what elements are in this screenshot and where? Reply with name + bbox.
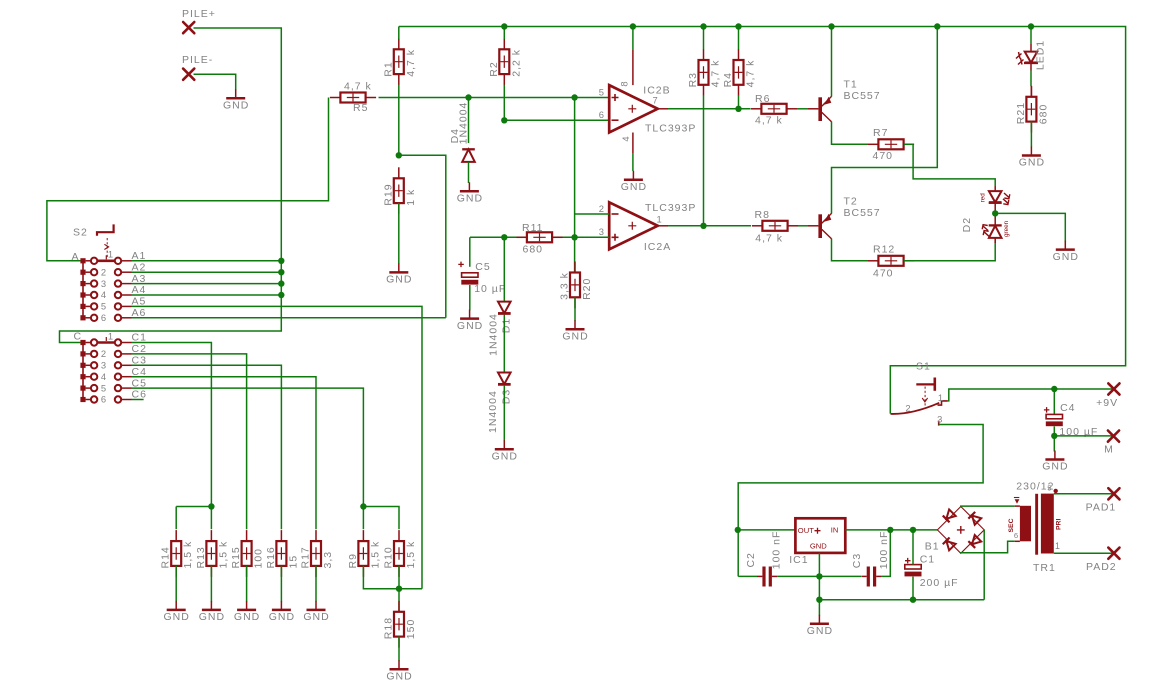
svg-text:5: 5 — [101, 301, 107, 312]
junction C3 top — [887, 527, 893, 533]
wire R19 bottom to ground — [398, 203, 400, 264]
svg-text:R12: R12 — [873, 244, 895, 256]
LED D2 red — [989, 186, 1010, 205]
wire R14 top — [175, 507, 177, 530]
capacitor C1 200uF — [905, 530, 922, 600]
svg-text:4,7 k: 4,7 k — [755, 115, 783, 127]
svg-text:3,3 k: 3,3 k — [559, 272, 571, 300]
svg-text:4,7 k: 4,7 k — [405, 49, 417, 77]
svg-text:GND: GND — [164, 611, 190, 623]
wire comparator + input net — [379, 97, 610, 99]
transformer TR1 secondary winding — [1020, 506, 1031, 542]
svg-text:B1: B1 — [925, 540, 940, 552]
wire C3 — [132, 365, 282, 529]
ground GND (R17) — [303, 601, 329, 623]
svg-text:1: 1 — [657, 214, 663, 225]
wire IC2A pin2 to reference column — [575, 213, 610, 215]
wire PILE- to ground — [194, 74, 236, 89]
wire R11 node down to D1 — [503, 237, 505, 301]
junction C1 bottom — [910, 597, 916, 603]
resistor R21 680 — [1026, 86, 1036, 133]
junction supply rail — [1028, 23, 1034, 29]
svg-text:+9V: +9V — [1096, 397, 1118, 409]
svg-text:3: 3 — [937, 413, 943, 424]
junction +9V / C4 — [1051, 386, 1057, 392]
wire R21 to ground — [1030, 122, 1032, 148]
wire R13 top lead — [210, 507, 212, 530]
wire S1 pin3 to regulator output — [738, 425, 983, 577]
svg-text:C5: C5 — [475, 261, 490, 273]
resistor R17 3,3 — [300, 530, 335, 577]
wire R8 to T2 base — [798, 225, 808, 227]
svg-text:R15: R15 — [230, 546, 242, 568]
switch S2 actuator — [73, 224, 114, 257]
resistor R12 470 — [868, 256, 914, 266]
svg-text:1N4004: 1N4004 — [487, 390, 499, 433]
svg-text:1,5 k: 1,5 k — [182, 541, 194, 569]
svg-text:R2: R2 — [488, 61, 500, 76]
resistor R14 1,5 k — [160, 530, 195, 577]
svg-text:1,5 k: 1,5 k — [405, 541, 417, 569]
pin M — [1108, 431, 1119, 442]
wire PRI pin1 to PAD2 — [1054, 552, 1114, 554]
resistor R20 3,3k — [570, 262, 580, 309]
switch S2 deck C common bus — [74, 331, 92, 403]
capacitor C2 100nF — [757, 567, 777, 587]
wire T1 collector to R7 — [832, 122, 869, 145]
resistor R10 1,5k — [383, 530, 418, 577]
svg-text:5: 5 — [101, 382, 107, 393]
svg-text:GND: GND — [492, 450, 518, 462]
diode D3 1N4004 — [498, 373, 511, 385]
wire R14 to ground — [175, 566, 177, 602]
LED LED1 — [1016, 52, 1038, 65]
svg-text:6: 6 — [101, 394, 107, 405]
svg-text:LED1: LED1 — [1035, 40, 1047, 70]
wire R18 to ground — [398, 636, 400, 661]
voltage regulator IC1 — [795, 518, 845, 553]
ground GND (R21) — [1019, 147, 1045, 169]
wire PILE+ to A-deck column — [60, 28, 282, 343]
switch S2 contact C3 — [91, 360, 132, 371]
svg-text:200 µF: 200 µF — [920, 577, 959, 589]
junction supply rail — [501, 23, 507, 29]
wire T2 collector to R12 — [832, 239, 869, 261]
op-amp IC2B TLC393P — [609, 85, 658, 132]
svg-text:R1: R1 — [382, 61, 394, 76]
svg-text:4,7 k: 4,7 k — [710, 60, 722, 88]
wire R3 top to rail — [703, 27, 705, 50]
transistor T1 BC557 — [818, 96, 831, 121]
svg-text:4: 4 — [620, 135, 631, 141]
resistor R13 1,5 k — [195, 530, 230, 577]
ground GND (C5) — [457, 310, 483, 332]
junction IC2B output / R4 / R6 — [735, 106, 741, 112]
wire - input net to pin 6 — [504, 119, 609, 121]
pin 8 of IC2B — [632, 27, 634, 51]
wire R2 top to rail — [503, 27, 505, 40]
capacitor C4 100uF — [1044, 407, 1050, 413]
junction R11 right / reference — [571, 234, 577, 240]
wire C6 — [132, 399, 144, 401]
svg-text:470: 470 — [873, 267, 894, 279]
switch S2 contact A1 — [91, 249, 132, 264]
svg-text:470: 470 — [873, 150, 894, 162]
svg-text:R4: R4 — [722, 72, 734, 87]
svg-text:100 nF: 100 nF — [878, 531, 890, 570]
svg-text:GND: GND — [457, 193, 483, 205]
svg-text:R3: R3 — [687, 72, 699, 87]
wire IC2A pin3 net — [470, 236, 609, 238]
wire R1 top to supply rail — [398, 27, 400, 40]
wire IC2B output — [658, 108, 668, 110]
pin 7 marker (TR1) — [1015, 499, 1020, 504]
svg-text:1N4004: 1N4004 — [488, 313, 500, 356]
ground GND (R20) — [562, 320, 588, 342]
svg-text:680: 680 — [523, 244, 544, 256]
svg-text:7: 7 — [653, 95, 659, 106]
switch S2 contact C5 — [91, 382, 132, 393]
svg-text:R11: R11 — [522, 222, 543, 234]
diode D4 1N4004 — [462, 149, 475, 162]
wire IC2A output — [658, 225, 668, 227]
svg-text:1: 1 — [1055, 541, 1061, 551]
svg-text:S1: S1 — [916, 361, 931, 373]
svg-text:R19: R19 — [382, 183, 394, 205]
svg-text:R6: R6 — [755, 93, 770, 105]
wire C4 node to ground — [1053, 436, 1055, 452]
wire ground rail bottom — [819, 599, 984, 601]
svg-text:PILE-: PILE- — [182, 54, 213, 66]
svg-text:4,7 k: 4,7 k — [755, 233, 783, 245]
ground GND (D3) — [492, 440, 518, 462]
wire rail branch to T2 emitter — [832, 27, 938, 214]
junction gnd rail 1 — [816, 573, 822, 579]
svg-text:D1: D1 — [501, 318, 513, 333]
wire A6 — [132, 317, 446, 319]
svg-text:100 nF: 100 nF — [771, 531, 783, 570]
svg-text:T1: T1 — [844, 79, 858, 91]
wire R9/R10 bottoms — [363, 566, 422, 589]
svg-text:R14: R14 — [160, 546, 172, 568]
svg-text:C2: C2 — [745, 552, 757, 567]
svg-text:15: 15 — [287, 555, 299, 569]
svg-text:GND: GND — [807, 625, 833, 637]
switch S2 contact A5 — [91, 301, 132, 312]
svg-text:10 µF: 10 µF — [474, 283, 506, 295]
svg-text:R20: R20 — [581, 278, 593, 300]
switch S2 contact C2 — [91, 348, 132, 359]
svg-text:150: 150 — [405, 619, 417, 640]
junction deck A — [278, 258, 284, 264]
wire node to A6 column — [399, 155, 446, 317]
pin PILE+ — [183, 22, 194, 33]
svg-text:5: 5 — [599, 86, 605, 97]
svg-text:230/12: 230/12 — [1016, 481, 1054, 493]
svg-text:GND: GND — [621, 181, 647, 193]
ground GND (IC2B pin4) — [621, 171, 647, 193]
svg-text:TLC393P: TLC393P — [645, 123, 696, 135]
svg-text:PAD1: PAD1 — [1086, 502, 1117, 514]
wire S1 pin1 to +9V — [948, 389, 1114, 401]
resistor R1 4,7k — [382, 38, 417, 85]
switch S2 contact A4 — [91, 289, 132, 300]
wire R4 top to rail — [738, 27, 740, 50]
wire C5 — [132, 388, 364, 506]
svg-text:PAD2: PAD2 — [1086, 561, 1117, 573]
op-amp IC2A TLC393P — [609, 202, 658, 249]
wire C4 top — [1053, 389, 1055, 414]
wire D3 to ground — [503, 386, 505, 441]
svg-text:2: 2 — [905, 402, 911, 413]
wire LED1 cathode to R21 — [1030, 63, 1032, 71]
wire D4 to + input net — [468, 98, 470, 144]
wire R17 to ground — [315, 566, 317, 602]
svg-text:3,3: 3,3 — [322, 551, 334, 569]
svg-text:GND: GND — [269, 611, 295, 623]
wire A4 — [132, 294, 282, 296]
svg-text:R8: R8 — [755, 209, 770, 221]
svg-text:4,7 k: 4,7 k — [344, 80, 372, 92]
wire R18 top lead — [398, 589, 400, 612]
svg-text:M: M — [1104, 443, 1114, 455]
capacitor C3 100nF — [861, 567, 881, 587]
junction supply rail — [828, 23, 834, 29]
svg-text:3: 3 — [101, 360, 107, 371]
switch S2 contact C4 — [91, 371, 132, 382]
svg-text:680: 680 — [1037, 104, 1049, 125]
wire C1 — [132, 343, 212, 507]
junction D2 cathodes — [992, 210, 998, 216]
ground GND (R14) — [164, 601, 190, 623]
svg-text:TR1: TR1 — [1033, 562, 1056, 574]
svg-text:8: 8 — [619, 80, 630, 86]
bridge rectifier B1 — [937, 507, 984, 554]
resistor R3 4,7k — [699, 49, 709, 96]
ground GND (R18) — [386, 660, 412, 682]
wire regulator OUT rail — [738, 529, 795, 531]
svg-text:A: A — [72, 251, 80, 263]
svg-text:GND: GND — [199, 611, 225, 623]
ground GND (R16) — [269, 601, 295, 623]
wire D2 to ground — [995, 213, 1065, 241]
transformer TR1 core — [1035, 494, 1038, 555]
pin PILE- — [183, 69, 194, 80]
wire R20 top — [574, 237, 576, 272]
resistor R6 4,7k — [751, 104, 797, 114]
capacitor C5 10uF — [458, 262, 464, 268]
diode D1 1N4004 — [498, 302, 511, 314]
svg-text:R10: R10 — [383, 546, 395, 568]
ground GND (PILE-) — [223, 89, 249, 111]
junction R9 top — [360, 503, 366, 509]
svg-text:R16: R16 — [265, 546, 277, 568]
wire R16 to ground — [280, 566, 282, 602]
wire IC1 GND pin — [818, 553, 820, 616]
wire D4 anode to ground — [468, 162, 470, 183]
junction deck A — [278, 292, 284, 298]
wire C2 left to OUT node — [738, 575, 757, 577]
wire C5 to R11 node — [469, 237, 471, 266]
pin PAD1 — [1108, 488, 1119, 499]
transistor T2 BC557 — [818, 213, 831, 238]
pin 4 of IC2B — [632, 133, 634, 154]
svg-text:S2: S2 — [73, 227, 88, 239]
svg-text:T2: T2 — [844, 196, 858, 208]
wire R6 to T1 base — [797, 108, 808, 110]
wire +V supply rail — [399, 27, 1126, 414]
svg-text:IC2A: IC2A — [644, 241, 671, 253]
svg-text:GND: GND — [562, 331, 588, 343]
svg-text:1,5 k: 1,5 k — [369, 541, 381, 569]
wire R7 to LED D2 red anode — [904, 144, 995, 186]
svg-text:4: 4 — [101, 289, 107, 300]
svg-text:GND: GND — [457, 320, 483, 332]
wire R2 bottom to - input net — [503, 85, 505, 121]
svg-text:1,5 k: 1,5 k — [217, 541, 229, 569]
wire R5 left to switch deck A common — [47, 98, 329, 261]
switch S2 contact A3 — [91, 278, 132, 289]
wire R3 bottom to IC2A output — [703, 96, 705, 226]
junction R13 top — [208, 503, 214, 509]
ground GND (D2) — [1053, 241, 1079, 263]
wire R14/R13 top link — [176, 506, 211, 508]
svg-text:R5: R5 — [353, 102, 368, 114]
svg-text:2: 2 — [101, 348, 107, 359]
ground GND (R19) — [386, 263, 412, 285]
wire C3 right to IN rail — [882, 530, 891, 577]
svg-text:GND: GND — [386, 274, 412, 286]
wire A1 — [132, 260, 282, 262]
wire R4 bottom to IC2B output — [738, 96, 740, 109]
wire bridge AC bottom to SEC — [961, 541, 1015, 553]
wire A3 — [132, 283, 282, 285]
junction on + input net at reference column — [571, 94, 577, 100]
wire T1 emitter to rail — [831, 27, 833, 97]
resistor R9 1,5k — [347, 530, 382, 577]
wire R1 bottom to R19 node — [398, 85, 400, 156]
wire ground rail C2-C3 — [777, 575, 861, 577]
svg-text:4,7 k: 4,7 k — [745, 60, 757, 88]
junction supply rail — [735, 23, 741, 29]
wire R13 to ground — [210, 566, 212, 602]
switch S2 contact A2 — [91, 266, 132, 277]
resistor R16 15 — [265, 530, 300, 577]
svg-text:BC557: BC557 — [844, 90, 881, 102]
ground GND (R15) — [234, 601, 260, 623]
resistor R8 4,7k — [752, 221, 798, 231]
junction supply rail — [700, 23, 706, 29]
LED D2 green — [982, 225, 1002, 243]
wire LED1 anode from rail — [1030, 27, 1032, 45]
svg-text:6: 6 — [1014, 531, 1019, 540]
svg-text:3: 3 — [101, 278, 107, 289]
svg-text:1N4004: 1N4004 — [458, 102, 470, 145]
svg-text:BC557: BC557 — [844, 207, 881, 219]
svg-text:PILE+: PILE+ — [182, 8, 216, 20]
junction - input net — [501, 117, 507, 123]
wire R12 to LED D2 green anode — [904, 238, 995, 261]
svg-text:GND: GND — [1053, 251, 1079, 263]
svg-text:2: 2 — [599, 203, 605, 214]
svg-text:GND: GND — [234, 611, 260, 623]
junction supply rail — [934, 23, 940, 29]
svg-text:GND: GND — [386, 671, 412, 683]
svg-text:GND: GND — [1042, 461, 1068, 473]
svg-text:R9: R9 — [347, 553, 359, 568]
svg-text:C1: C1 — [920, 554, 935, 566]
svg-text:D3: D3 — [501, 389, 513, 404]
wire bridge minus to ground rail — [983, 530, 985, 600]
svg-text:2: 2 — [101, 266, 107, 277]
junction R11 left / C5 — [501, 234, 507, 240]
svg-text:1: 1 — [108, 330, 114, 341]
svg-text:R18: R18 — [383, 617, 395, 639]
ground GND (D4) — [457, 182, 483, 204]
junction deck A — [278, 280, 284, 286]
svg-text:3: 3 — [599, 226, 605, 237]
switch S2 contact C6 — [91, 394, 132, 405]
ground GND (C4) — [1042, 451, 1068, 473]
wire C5 to ground — [469, 285, 471, 311]
svg-text:R13: R13 — [195, 546, 207, 568]
resistor R19 1k — [382, 167, 417, 214]
wire A5 — [132, 306, 423, 588]
pin 5 marker (TR1) — [1054, 489, 1058, 493]
svg-text:4: 4 — [101, 371, 107, 382]
wire R15 to ground — [246, 566, 248, 602]
svg-text:C4: C4 — [1060, 402, 1075, 414]
resistor R18 150 — [383, 601, 418, 648]
switch S2 contact C1 — [91, 330, 132, 345]
junction supply rail — [630, 23, 636, 29]
svg-text:PRI: PRI — [1056, 519, 1063, 530]
wire D2 cathodes junction — [994, 203, 996, 225]
svg-text:1: 1 — [938, 392, 944, 403]
svg-text:IN: IN — [831, 526, 839, 535]
wire A2 — [132, 271, 282, 273]
svg-text:R7: R7 — [873, 127, 888, 139]
junction regulator OUT node — [735, 527, 741, 533]
switch S2 deck A common bus — [72, 251, 92, 320]
wire R9 top lead — [362, 507, 364, 530]
svg-text:R21: R21 — [1015, 102, 1027, 124]
svg-text:IC1: IC1 — [789, 554, 808, 566]
junction on + input net at D4 — [465, 94, 471, 100]
junction IC2A output / R3 — [700, 223, 706, 229]
junction C1 top — [910, 527, 916, 533]
wire IC1 IN rail — [845, 529, 937, 531]
junction node R1/R19 — [396, 152, 402, 158]
svg-text:C3: C3 — [851, 553, 863, 568]
svg-text:OUT: OUT — [798, 526, 814, 535]
svg-text:R17: R17 — [300, 546, 312, 568]
wire R9/R10 top link — [363, 507, 399, 530]
resistor R2 2,2k — [488, 38, 523, 85]
svg-text:100: 100 — [253, 548, 265, 569]
svg-text:GND: GND — [303, 611, 329, 623]
junction gnd rail 2 — [816, 597, 822, 603]
svg-text:2,2 k: 2,2 k — [510, 49, 522, 77]
wire C4 bottom to M pin — [1053, 426, 1055, 436]
wire R20 bottom to ground — [574, 297, 576, 321]
svg-text:green: green — [1003, 220, 1010, 237]
svg-text:1: 1 — [108, 249, 114, 260]
ground GND (R13) — [199, 601, 225, 623]
switch S1 — [891, 361, 948, 426]
svg-text:D2: D2 — [961, 217, 973, 232]
svg-text:1 k: 1 k — [405, 189, 417, 206]
